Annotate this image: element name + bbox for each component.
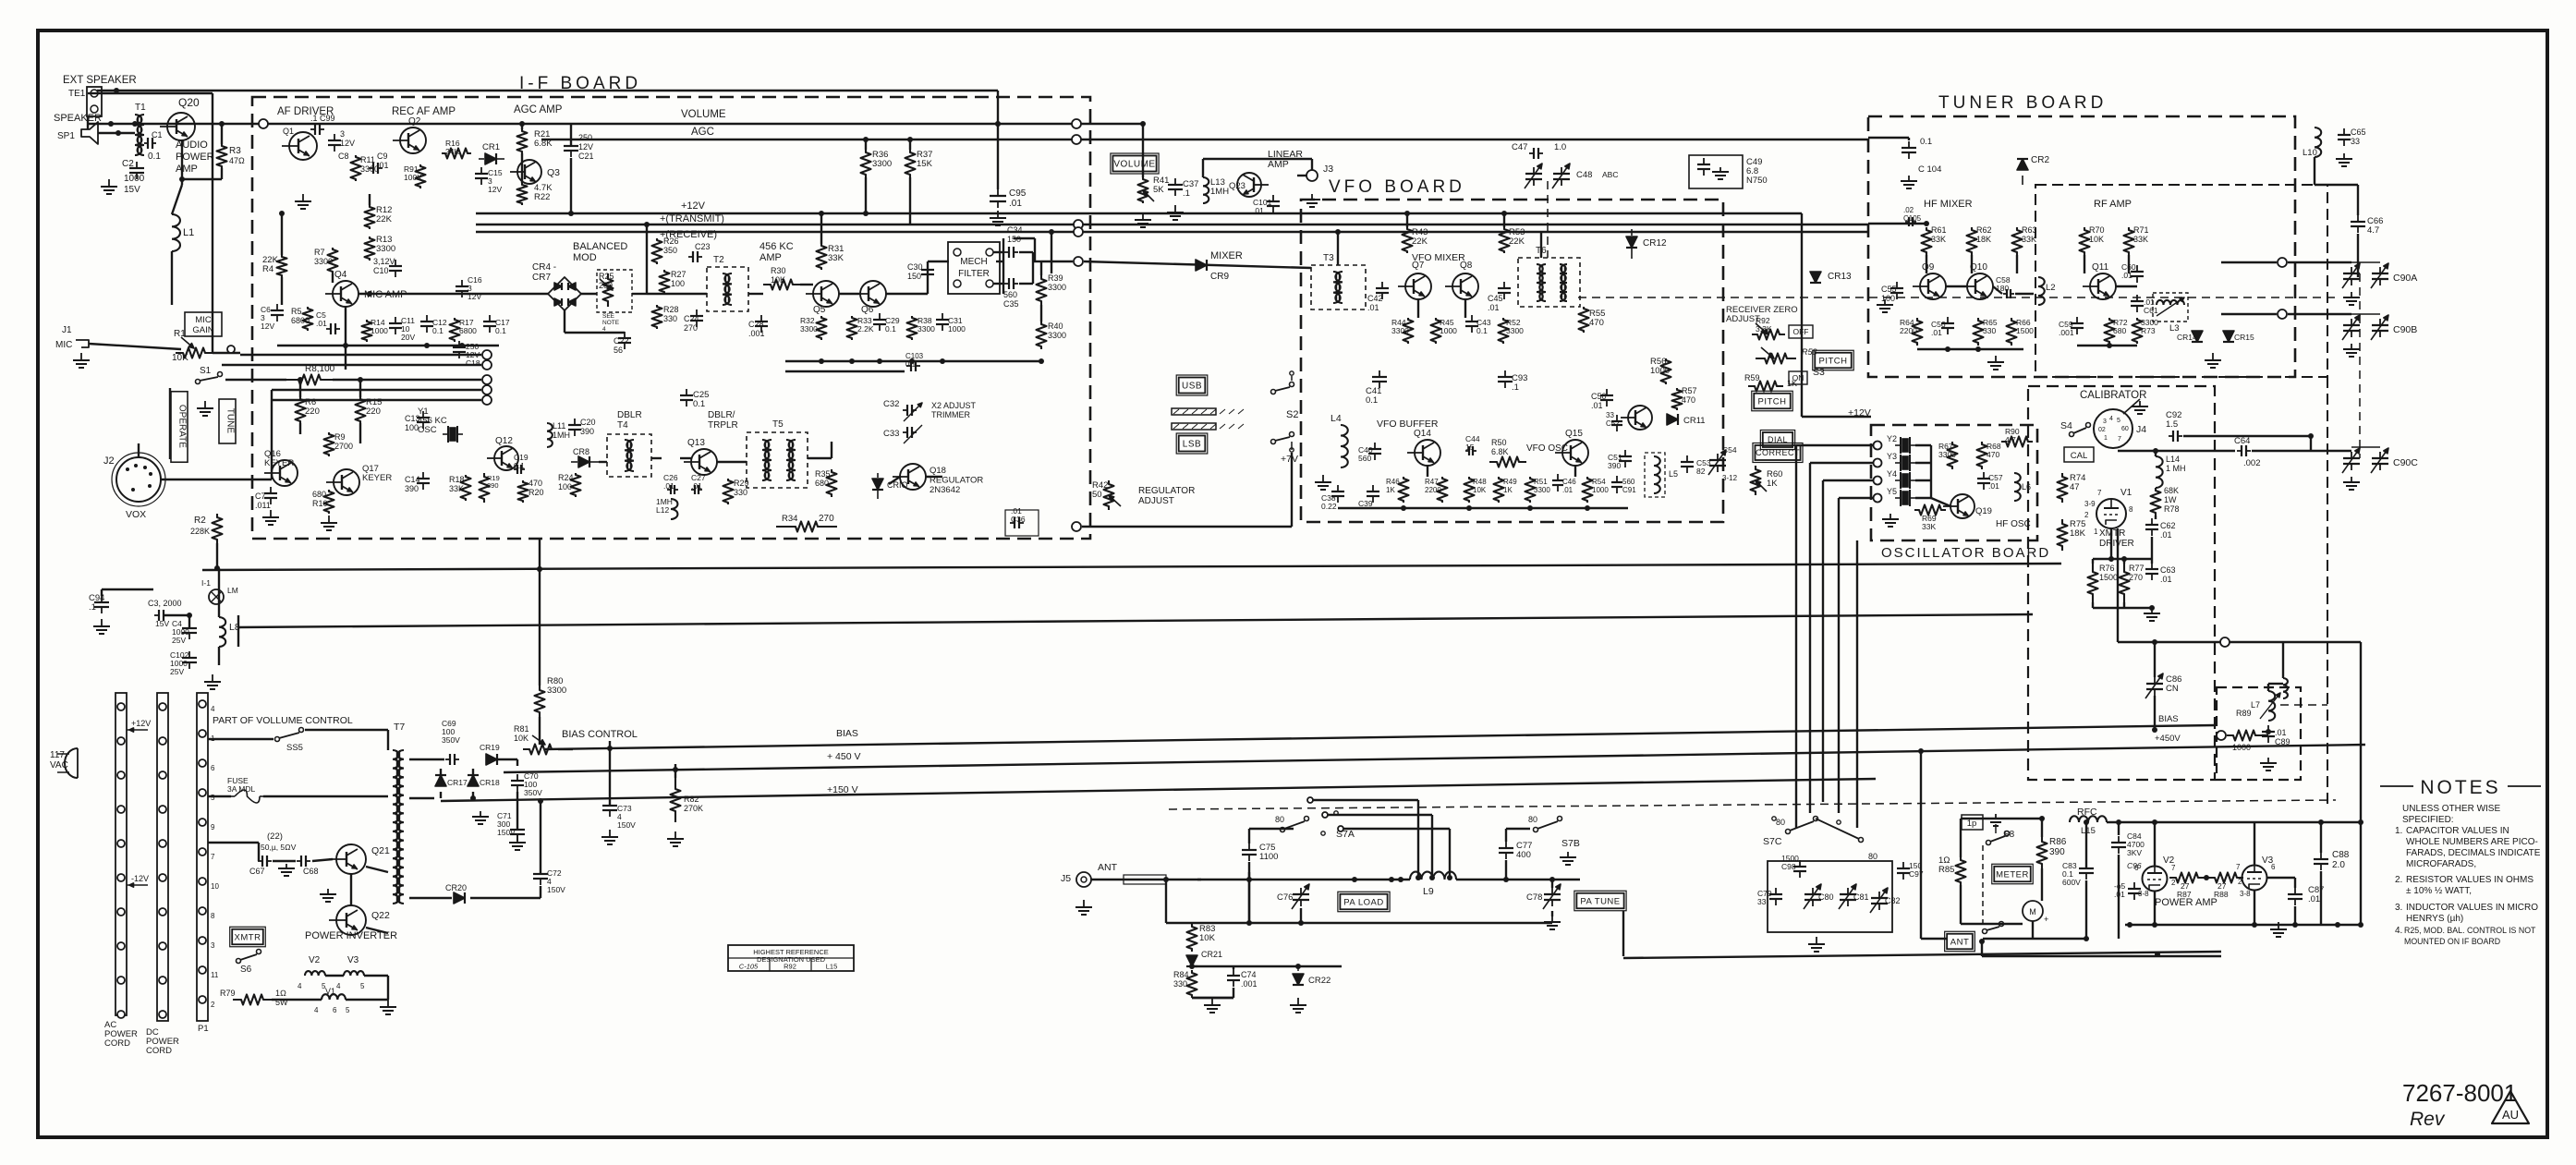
- wire mic line: [89, 344, 181, 349]
- wire meter: [1960, 819, 1962, 857]
- VFO board outline: [1301, 200, 1723, 522]
- wire PA tune bottom: [1551, 911, 1553, 916]
- gang dash C48 to T6: [1547, 181, 1549, 258]
- svg-text:1000: 1000: [124, 174, 145, 184]
- svg-text:.001: .001: [2059, 328, 2074, 337]
- svg-text:V1: V1: [325, 987, 335, 996]
- svg-text:R35: R35: [815, 469, 831, 479]
- svg-text:R46: R46: [1386, 478, 1400, 486]
- wire PA bottom rail: [1623, 952, 2221, 958]
- ground R41: [1142, 212, 1144, 220]
- capacitor C23: [688, 256, 693, 258]
- resistor R14: [362, 320, 372, 342]
- inductor L8: [219, 617, 225, 647]
- wire Q20 emitter: [181, 140, 183, 185]
- svg-text:3300: 3300: [800, 324, 818, 334]
- capacitor C2: [136, 162, 138, 168]
- svg-text:SPEAKER: SPEAKER: [54, 113, 102, 124]
- ground Q1: [302, 194, 304, 201]
- svg-text:RESISTOR VALUES IN OHMS: RESISTOR VALUES IN OHMS: [2406, 875, 2533, 885]
- svg-text:CORD: CORD: [104, 1038, 130, 1049]
- svg-text:1K: 1K: [1503, 486, 1513, 494]
- svg-text:5: 5: [360, 982, 365, 990]
- svg-text:4.: 4.: [2395, 926, 2402, 936]
- svg-text:82: 82: [1696, 467, 1706, 476]
- wire BIAS rail: [545, 725, 2216, 749]
- svg-text:50: 50: [1092, 490, 1102, 500]
- svg-text:400: 400: [1516, 850, 1531, 860]
- svg-text:560: 560: [1622, 478, 1635, 486]
- wire cal out: [2183, 435, 2311, 437]
- wire bandswitch 4: [1838, 498, 1840, 813]
- svg-text:C35: C35: [1003, 299, 1019, 309]
- capacitor C94: [101, 596, 103, 602]
- svg-text:AMP: AMP: [759, 252, 782, 263]
- svg-text:METER: METER: [1996, 869, 2029, 880]
- svg-text:100K: 100K: [404, 173, 422, 182]
- resistor R4: [277, 255, 287, 277]
- svg-text:3-8: 3-8: [2240, 890, 2251, 898]
- capacitor C8: [334, 134, 335, 140]
- capacitor C38: [1337, 485, 1339, 491]
- capacitor C17: [489, 315, 491, 322]
- svg-text:3300: 3300: [1391, 326, 1409, 335]
- tube V3: [2242, 866, 2267, 891]
- svg-text:3300: 3300: [917, 324, 935, 334]
- wire R36 R37 to AGC: [865, 140, 867, 150]
- svg-text:CR20: CR20: [445, 883, 467, 892]
- svg-text:AGC: AGC: [691, 127, 714, 138]
- inductor L12: [671, 499, 677, 519]
- svg-text:R9: R9: [334, 432, 346, 442]
- svg-text:C61: C61: [2144, 306, 2158, 315]
- svg-text:.01: .01: [2275, 728, 2287, 737]
- capacitor C56: [1947, 317, 1949, 323]
- svg-text:R26: R26: [663, 237, 679, 246]
- svg-text:.01: .01: [1253, 206, 1264, 215]
- table highest reference: [728, 945, 854, 971]
- svg-text:5: 5: [211, 794, 215, 802]
- svg-text:12V: 12V: [578, 142, 593, 152]
- capacitor C73: [609, 741, 611, 806]
- transformer T2: [707, 267, 748, 311]
- wire L9 to C78: [1456, 879, 1580, 880]
- inductor RFC L15: [2070, 816, 2107, 822]
- svg-text:4.7: 4.7: [2367, 225, 2379, 236]
- diode CR18: [468, 775, 479, 786]
- capacitor C7: [270, 487, 272, 493]
- diode CR12: [1626, 237, 1637, 248]
- wire bandswitch 5: [1856, 540, 1858, 828]
- svg-text:220: 220: [366, 407, 381, 417]
- svg-text:AMP: AMP: [1268, 159, 1289, 170]
- wire PA plate to C86: [2360, 642, 2362, 925]
- wire +12V bus: [476, 212, 1802, 214]
- resistor R51: [1525, 477, 1536, 503]
- resistor R11: [351, 155, 361, 181]
- svg-text:C23: C23: [695, 242, 711, 251]
- svg-text:C89: C89: [2275, 737, 2290, 746]
- svg-text:C90C: C90C: [2393, 457, 2418, 468]
- transistor Q20: [167, 113, 195, 140]
- capacitor C86 CN: [2154, 677, 2156, 684]
- svg-text:CR14: CR14: [2177, 333, 2197, 342]
- diode CR11: [1667, 414, 1678, 425]
- svg-text:R50: R50: [1491, 438, 1507, 447]
- svg-text:C22: C22: [614, 336, 629, 346]
- transistor Q15: [1562, 440, 1588, 466]
- svg-text:330: 330: [1173, 979, 1187, 989]
- svg-text:C21: C21: [578, 152, 594, 161]
- svg-text:ADJUST: ADJUST: [1138, 496, 1174, 506]
- svg-text:ANT: ANT: [1950, 937, 1970, 947]
- svg-text:C34: C34: [1007, 225, 1023, 235]
- inductor L11: [547, 423, 553, 447]
- transistor Q9: [1920, 273, 1946, 299]
- potentiometer R42: [1104, 480, 1114, 510]
- svg-text:R7: R7: [314, 248, 325, 257]
- ground S8: [1995, 814, 1997, 819]
- svg-text:12V: 12V: [488, 185, 502, 194]
- wire R1 to S1: [213, 352, 240, 354]
- capacitor C91: [1616, 476, 1618, 482]
- svg-text:RFC: RFC: [2077, 807, 2097, 818]
- svg-text:R77: R77: [2129, 564, 2145, 573]
- resistor R71: [2124, 227, 2134, 255]
- capacitor C55: [1896, 282, 1898, 288]
- capacitor C34: [1004, 251, 1009, 253]
- resistor R33: [847, 316, 857, 340]
- wire mic amp rails: [281, 213, 283, 255]
- svg-text:XMTR: XMTR: [235, 932, 261, 942]
- ground L10: [2343, 153, 2345, 159]
- svg-text:CALIBRATOR: CALIBRATOR: [2080, 390, 2146, 401]
- svg-text:3-12: 3-12: [1722, 474, 1738, 482]
- svg-text:C48: C48: [1576, 170, 1592, 180]
- svg-text:J2: J2: [103, 455, 115, 467]
- svg-text:6800: 6800: [459, 326, 477, 335]
- svg-text:150V: 150V: [547, 885, 565, 894]
- svg-text:BIAS: BIAS: [836, 728, 858, 739]
- switch S7B: [1534, 828, 1538, 832]
- svg-text:L9: L9: [1423, 886, 1434, 897]
- svg-text:PITCH: PITCH: [1819, 356, 1848, 366]
- wire mixer line: [1084, 261, 1311, 268]
- wire bandswitch 3: [1822, 480, 1824, 802]
- resistor R21: [517, 129, 528, 153]
- label PITCH lower: [1754, 394, 1790, 409]
- svg-text:350V: 350V: [442, 735, 460, 745]
- svg-text:350V: 350V: [524, 788, 542, 797]
- svg-text:270: 270: [2129, 573, 2143, 582]
- svg-text:R76: R76: [2099, 564, 2115, 573]
- capacitor C105: [1905, 221, 1909, 223]
- svg-text:8: 8: [211, 912, 215, 920]
- wire L8 area: [218, 568, 220, 617]
- resistor R80: [539, 539, 541, 686]
- inductor L14: [2156, 456, 2163, 488]
- variable capacitor C82: [1878, 892, 1880, 898]
- crystal Y1: [447, 426, 449, 443]
- capacitor C30: [927, 263, 929, 270]
- svg-text:CR21: CR21: [1201, 950, 1222, 959]
- resistor R15: [356, 397, 366, 423]
- svg-text:0.1: 0.1: [1920, 137, 1932, 147]
- svg-text:L10: L10: [2303, 148, 2317, 158]
- svg-text:1.: 1.: [2395, 826, 2402, 836]
- resistor R40: [1037, 322, 1047, 349]
- switch S7A: [1281, 828, 1285, 832]
- capacitor C49: [1689, 155, 1743, 188]
- svg-text:MOD: MOD: [573, 252, 597, 263]
- diode CR9: [1196, 260, 1207, 271]
- svg-text:BIAS: BIAS: [2158, 714, 2179, 724]
- svg-text:L7: L7: [2251, 700, 2260, 710]
- svg-text:C105: C105: [1903, 214, 1922, 223]
- capacitor C74: [1233, 969, 1234, 976]
- svg-text:330: 330: [663, 314, 677, 323]
- svg-text:FILTER: FILTER: [958, 269, 990, 279]
- svg-text:2200: 2200: [1425, 486, 1441, 494]
- wire vox vertical: [169, 388, 171, 459]
- resistor R70: [2080, 227, 2090, 255]
- gang dash L7 link: [2280, 704, 2327, 706]
- capacitor C71: [516, 823, 518, 830]
- svg-text:1500: 1500: [2016, 326, 2034, 335]
- svg-text:MIC: MIC: [55, 340, 72, 350]
- svg-text:NOTES: NOTES: [2420, 777, 2500, 798]
- resistor R10: [324, 490, 334, 514]
- svg-text:.01: .01: [691, 481, 702, 491]
- terminal IF bottom out: [1072, 522, 1081, 531]
- svg-text:.1: .1: [1512, 382, 1519, 393]
- svg-text:CR11: CR11: [1683, 416, 1706, 426]
- svg-text:0.1: 0.1: [514, 461, 525, 470]
- svg-text:C28: C28: [748, 320, 764, 329]
- transistor Q8: [1452, 273, 1478, 299]
- svg-text:L4: L4: [1331, 413, 1342, 424]
- resistor R19: [480, 473, 490, 503]
- wire driver: [2110, 528, 2112, 559]
- resistor R18: [461, 475, 471, 501]
- diode CR17: [435, 775, 446, 786]
- capacitor C45: [1503, 282, 1505, 288]
- svg-text:6.8K: 6.8K: [1491, 447, 1509, 456]
- svg-text:1K: 1K: [1386, 486, 1395, 494]
- resistor R2: [213, 514, 223, 543]
- capacitor C43: [1471, 315, 1473, 322]
- resistor R34: [776, 522, 837, 532]
- svg-text:2: 2: [2084, 511, 2089, 519]
- wire 456kc row: [647, 293, 707, 295]
- capacitor C19: [514, 468, 517, 470]
- svg-text:R28: R28: [663, 305, 679, 314]
- wire C90A line: [2278, 258, 2287, 267]
- heater V1b: [322, 994, 346, 1000]
- AU triangle: [2492, 1091, 2529, 1123]
- svg-text:RF AMP: RF AMP: [2094, 199, 2132, 210]
- svg-text:.01: .01: [2114, 890, 2125, 899]
- svg-text:470: 470: [529, 479, 542, 488]
- resistor R75: [2058, 519, 2068, 551]
- svg-text:6800: 6800: [291, 316, 310, 325]
- resistor R28: [652, 305, 662, 329]
- capacitor C44: [1465, 450, 1469, 452]
- svg-text:150V: 150V: [617, 820, 636, 830]
- svg-text:C90B: C90B: [2393, 324, 2417, 335]
- svg-text:.01: .01: [1562, 486, 1574, 494]
- svg-text:228K: 228K: [190, 527, 210, 536]
- svg-text:2.0: 2.0: [2332, 860, 2345, 870]
- svg-text:Q21: Q21: [371, 845, 390, 856]
- svg-text:Q23: Q23: [1229, 181, 1245, 191]
- gang bar upper: [1172, 408, 1216, 415]
- svg-text:3300: 3300: [872, 159, 892, 169]
- diode CR19: [486, 754, 497, 765]
- crystal Y3: [1900, 455, 1902, 471]
- svg-text:OSC: OSC: [418, 425, 437, 435]
- svg-text:J1: J1: [62, 325, 72, 335]
- capacitor C36: [1010, 522, 1015, 524]
- svg-text:J4: J4: [2136, 424, 2146, 435]
- capacitor C40: [1374, 443, 1376, 449]
- svg-text:.001: .001: [748, 329, 765, 338]
- crystal Y4: [1900, 472, 1902, 489]
- capacitor C98: [1799, 860, 1801, 867]
- svg-text:MICROFARADS,: MICROFARADS,: [2406, 859, 2476, 869]
- svg-text:1: 1: [2094, 528, 2098, 536]
- svg-text:1.0: 1.0: [1554, 142, 1566, 152]
- capacitor C16: [461, 280, 463, 286]
- crystal Y5: [1900, 490, 1902, 506]
- svg-text:3300: 3300: [376, 244, 395, 254]
- svg-text:FARADS, DECIMALS INDICATE: FARADS, DECIMALS INDICATE: [2406, 848, 2541, 858]
- label TUNE: [219, 399, 236, 443]
- svg-text:R5: R5: [291, 307, 302, 316]
- svg-text:C10: C10: [373, 266, 389, 275]
- resistor R79: [233, 995, 272, 1005]
- svg-text:.01: .01: [1488, 303, 1500, 312]
- svg-text:22K: 22K: [1412, 237, 1428, 247]
- terminal Y3 in: [1874, 459, 1882, 467]
- svg-text:R48: R48: [1473, 478, 1487, 486]
- svg-text:1MH: 1MH: [553, 431, 570, 440]
- svg-text:150: 150: [907, 272, 921, 281]
- svg-text:C18: C18: [466, 358, 480, 368]
- svg-text:.02: .02: [1903, 206, 1914, 214]
- svg-text:CR4 -: CR4 -: [532, 262, 556, 273]
- svg-text:S7B: S7B: [1561, 838, 1580, 849]
- svg-text:680: 680: [815, 479, 829, 488]
- svg-text:Q7: Q7: [1412, 261, 1425, 271]
- resistor R26: [652, 238, 662, 264]
- svg-text:390: 390: [1608, 461, 1621, 470]
- wire L7: [2262, 734, 2268, 736]
- svg-text:7: 7: [2171, 864, 2176, 872]
- svg-text:200: 200: [599, 281, 613, 290]
- svg-text:+12V: +12V: [681, 200, 706, 212]
- svg-text:250: 250: [578, 133, 592, 142]
- svg-text:T2: T2: [713, 255, 724, 265]
- transistor Q21: [336, 844, 366, 874]
- ground C95: [997, 211, 999, 218]
- ground speaker: [108, 179, 110, 187]
- resistor R54: [1583, 477, 1593, 503]
- wire psu: [409, 758, 444, 760]
- svg-text:.1: .1: [89, 602, 96, 613]
- wire inverter: [273, 860, 296, 862]
- svg-text:R57: R57: [1682, 386, 1697, 395]
- svg-text:+(TRANSMIT): +(TRANSMIT): [660, 213, 724, 225]
- wire IF top verticals: [521, 124, 523, 129]
- capacitor C60: [2136, 265, 2138, 272]
- transformer T6: [1518, 258, 1580, 307]
- svg-text:1MH: 1MH: [1210, 187, 1229, 197]
- svg-text:Q15: Q15: [1565, 429, 1583, 439]
- svg-text:.01: .01: [2160, 575, 2172, 584]
- svg-text:R85: R85: [1938, 865, 1954, 875]
- svg-text:3: 3: [340, 129, 345, 139]
- resistor R35: [827, 469, 837, 497]
- label MIC GAIN: [185, 312, 222, 336]
- svg-text:KEYER: KEYER: [362, 473, 392, 483]
- svg-text:4: 4: [336, 982, 341, 990]
- transistor Q22: [336, 905, 366, 935]
- svg-text:80: 80: [1776, 818, 1785, 827]
- svg-text:C97: C97: [1909, 869, 1924, 879]
- wire AGC into tuner: [1868, 137, 1909, 139]
- wire tuner: [1868, 223, 1926, 225]
- svg-text:.01: .01: [377, 161, 389, 170]
- svg-text:5: 5: [2117, 418, 2120, 424]
- capacitor C77: [1505, 842, 1507, 848]
- ground C67: [286, 864, 287, 868]
- wire J5 coax: [1091, 879, 1201, 880]
- svg-text:R25: R25: [599, 272, 614, 281]
- switch S2 lower: [1271, 440, 1276, 444]
- svg-text:R40: R40: [1048, 322, 1063, 331]
- svg-text:ANT: ANT: [1098, 862, 1118, 873]
- diode CR8: [578, 456, 589, 467]
- resistor R36: [861, 150, 871, 177]
- svg-text:C47: C47: [1512, 142, 1527, 152]
- svg-text:0.1: 0.1: [885, 324, 896, 334]
- ground keyer: [270, 510, 272, 517]
- label LSB: [1179, 436, 1206, 452]
- svg-text:POWER AMP: POWER AMP: [2155, 897, 2218, 908]
- svg-text:L15: L15: [826, 963, 838, 971]
- wire bandswitch 2: [1809, 463, 1811, 813]
- svg-text:3300: 3300: [547, 686, 566, 696]
- capacitor C65: [2343, 128, 2345, 135]
- svg-text:R29: R29: [734, 479, 749, 488]
- switch S4: [2070, 432, 2074, 437]
- svg-text:CR8: CR8: [573, 447, 589, 456]
- switch S2 upper: [1271, 390, 1276, 394]
- label 1p: [1962, 815, 1983, 830]
- svg-text:(22): (22): [267, 831, 283, 842]
- capacitor C67: [258, 860, 262, 862]
- trimmer C33: [903, 431, 907, 433]
- resistor R30: [763, 280, 800, 290]
- wire R84 C74: [1192, 965, 1233, 967]
- svg-text:R70: R70: [2089, 225, 2105, 235]
- svg-text:TUNE: TUNE: [225, 408, 236, 434]
- svg-text:L1: L1: [183, 227, 194, 238]
- resistor R16: [442, 149, 471, 159]
- capacitor C95: [997, 189, 999, 196]
- resistor R3: [217, 144, 227, 168]
